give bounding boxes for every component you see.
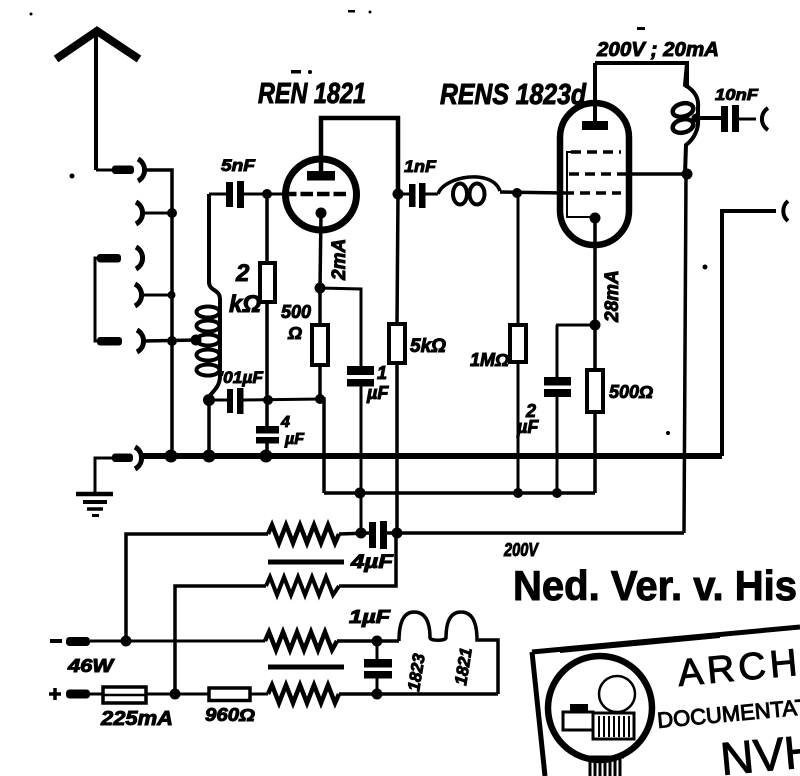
resistor R6 zigzag: [268, 525, 339, 543]
wire minus line: [90, 640, 265, 643]
bar element B1: [268, 560, 344, 565]
wire J2 stem: [141, 212, 172, 215]
wire 200V loop: [595, 63, 687, 88]
node J2-tap junction: [167, 208, 177, 218]
resistor R2 500ohm cathode: [318, 288, 322, 325]
wire L3 tap to C3: [694, 116, 721, 120]
svg-text:500Ω: 500Ω: [609, 382, 653, 402]
svg-text:µF: µF: [366, 383, 389, 403]
tube V1 REN1821: [286, 159, 357, 230]
svg-text:500: 500: [281, 302, 311, 322]
svg-text:REN 1821: REN 1821: [258, 78, 366, 110]
svg-text:1: 1: [377, 363, 387, 383]
node grid REN: [262, 189, 272, 199]
capacitor C8 4uF: [369, 522, 376, 548]
svg-text:1µF: 1µF: [349, 607, 391, 627]
plug P5: [97, 337, 122, 346]
capacitor C2 1nF: [393, 189, 404, 200]
resistor R3 5k: [397, 194, 398, 324]
wire fuse to R9: [146, 693, 209, 696]
resistor R5 500ohm: [593, 325, 597, 370]
wire R7 left down: [175, 586, 266, 694]
socket arc J6: [135, 447, 142, 469]
specks: [291, 70, 301, 74]
cathode V1: [316, 208, 327, 219]
wire V1 anode lead: [321, 118, 398, 194]
plug P1: [112, 166, 134, 175]
node J4 junction: [168, 291, 176, 299]
capacitor C1 5nF: [226, 182, 233, 207]
node plus divider: [170, 689, 181, 700]
wire 493 return line: [324, 491, 595, 495]
ground: [76, 492, 113, 497]
socket arc J3: [136, 247, 143, 269]
node 200V rail: [392, 528, 403, 539]
anode plate V2: [582, 121, 608, 130]
svg-text:225mA: 225mA: [100, 708, 173, 730]
grid V1 dashes: [284, 192, 346, 197]
wire J4 stem: [140, 294, 172, 297]
wire antenna lead down: [94, 31, 98, 170]
svg-text:2mA: 2mA: [329, 239, 350, 281]
tube V2 RENS1823d: [560, 103, 629, 245]
node C7 on 493: [552, 488, 562, 498]
svg-text:4µF: 4µF: [350, 552, 395, 573]
capacitor C9 1uF: [376, 641, 379, 660]
wire node D down to 200V rail: [684, 174, 686, 533]
wire C3 to terminal T1: [737, 118, 756, 121]
stamp logo base: [586, 757, 624, 776]
svg-text:'01µF: '01µF: [219, 368, 264, 387]
heater chain 1823 1821: [399, 612, 498, 694]
inductor L2 choke: [438, 177, 500, 194]
socket arc J4: [135, 284, 142, 306]
wire J1 to tap bus: [145, 170, 172, 456]
svg-text:5kΩ: 5kΩ: [410, 336, 446, 357]
capacitor C3 10nF: [721, 106, 728, 132]
svg-text:1nF: 1nF: [404, 157, 437, 176]
bar element B2: [268, 665, 344, 670]
node cathode V1: [315, 283, 326, 294]
stamp logo circle: [548, 656, 652, 760]
coil L1: [197, 194, 221, 398]
plug P3: [97, 254, 121, 263]
wire plus to fuse: [90, 693, 103, 696]
svg-text:2: 2: [235, 260, 250, 287]
svg-text:200V: 200V: [503, 540, 539, 560]
plug plus: [66, 690, 90, 699]
node J5 junction: [167, 336, 177, 346]
grid g1 dashes V2: [564, 191, 621, 195]
inductor L3 output choke: [685, 63, 698, 174]
node grid V2: [512, 188, 522, 198]
wire screen to node D: [629, 172, 687, 176]
wire J5 to coil tap: [144, 340, 197, 341]
terminal arc T1: [762, 108, 768, 130]
svg-text:1MΩ: 1MΩ: [470, 350, 509, 370]
node B 2k bottom: [263, 395, 273, 405]
plug minus: [66, 637, 90, 646]
node C5 bus: [260, 450, 273, 463]
resistor R7 zigzag: [266, 577, 339, 595]
resistor R9 960ohm: [209, 688, 250, 701]
stamp border: [532, 627, 800, 652]
resistor R8 zigzag: [265, 632, 337, 650]
wire 200V rail: [387, 531, 684, 535]
plug P6: [112, 454, 133, 463]
capacitor C5 4uF grid-line: [265, 400, 269, 427]
svg-text:5nF: 5nF: [221, 156, 256, 175]
socket arc J2: [136, 202, 143, 224]
antenna: [56, 31, 139, 59]
node 1uF on 493: [355, 488, 366, 499]
terminal minus: [50, 639, 62, 643]
grid g3 dashes V2: [571, 150, 621, 154]
wire node A to bus: [207, 400, 211, 456]
wire main bus: [142, 453, 722, 459]
svg-text:kΩ: kΩ: [229, 291, 261, 318]
capacitor C6 1uF cathode bypass: [320, 288, 361, 366]
node R4 on 493: [513, 488, 523, 498]
svg-text:Ω: Ω: [287, 323, 302, 343]
node minus divider: [121, 636, 132, 647]
resistor R4 1M: [517, 193, 520, 325]
wire antenna to plug P1: [96, 169, 113, 172]
terminal arc T2: [783, 201, 788, 221]
wire V1 cathode lead: [320, 213, 321, 288]
stamp logo radio sketch: [570, 704, 588, 712]
node tap bus: [165, 450, 178, 463]
terminal plus: [49, 688, 61, 700]
node coil tap blob: [191, 335, 202, 346]
anode plate V1: [307, 171, 335, 181]
wire cathode branch V2: [556, 324, 595, 327]
wire node C down-around to 493 line: [320, 399, 324, 493]
resistor R1 2k: [265, 194, 269, 263]
wire V2 cathode lead: [593, 218, 597, 325]
wire choke to grid V2: [500, 192, 564, 193]
svg-text:200V ; 20mA: 200V ; 20mA: [596, 39, 719, 61]
wire R10 to heater return: [339, 692, 498, 696]
wire divider top corner: [126, 534, 268, 641]
node D screen/choke: [682, 169, 693, 180]
node C9 top: [372, 636, 383, 647]
wire P3 to P5 link: [95, 258, 97, 341]
node coil bus: [203, 450, 216, 463]
capacitor C7 2uF: [556, 325, 559, 377]
svg-text:Ned. Ver. v. His: Ned. Ver. v. His: [513, 562, 797, 609]
socket arc J1: [138, 159, 145, 181]
node A 0.1uF left: [203, 394, 215, 406]
stamp logo bulb: [599, 676, 635, 712]
socket arc J5: [137, 330, 144, 352]
wire R6 to C8: [339, 533, 369, 534]
wire R8 to heater: [337, 639, 399, 643]
node C 500ohm bottom: [315, 394, 325, 404]
svg-text:RENS 1823d: RENS 1823d: [440, 79, 587, 111]
cathode V2: [590, 213, 601, 224]
svg-text:46W: 46W: [67, 656, 116, 676]
svg-text:10nF: 10nF: [715, 87, 759, 104]
svg-text:µF: µF: [284, 431, 305, 448]
wire V2 anode lead up: [593, 63, 597, 122]
svg-text:28mA: 28mA: [602, 270, 623, 323]
node C6-C8: [356, 528, 367, 539]
fuse F1: [103, 687, 146, 703]
wire P6 to ground: [95, 458, 112, 492]
svg-text:µF: µF: [516, 417, 539, 437]
wire T2 down to bus: [722, 211, 776, 456]
grid g2 dashes V2: [569, 172, 631, 176]
node C9 bottom: [372, 689, 383, 700]
node cathode V2 branch: [590, 320, 601, 331]
wire R7 right up: [339, 535, 396, 586]
svg-text:4: 4: [280, 414, 290, 431]
resistor R10 zigzag: [268, 685, 339, 703]
capacitor C4 0.1uF: [227, 389, 233, 413]
svg-text:960Ω: 960Ω: [205, 705, 255, 725]
wire R9 to R10: [250, 693, 268, 696]
wire g3-cathode internal link: [567, 152, 592, 217]
